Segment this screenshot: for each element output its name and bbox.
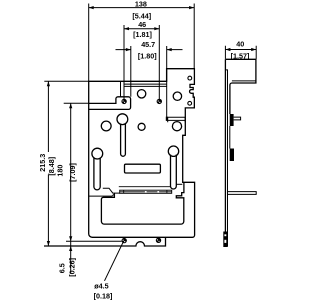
svg-text:215.3: 215.3	[38, 154, 47, 172]
svg-text:[5.44]: [5.44]	[132, 11, 151, 20]
svg-text:45.7: 45.7	[141, 40, 155, 49]
svg-text:ø4.5: ø4.5	[94, 282, 108, 291]
svg-text:[1.80]: [1.80]	[138, 51, 157, 60]
svg-text:46: 46	[138, 20, 146, 29]
svg-text:[1.81]: [1.81]	[133, 30, 152, 39]
svg-text:6.5: 6.5	[57, 263, 66, 273]
svg-text:[0.26]: [0.26]	[68, 258, 77, 277]
svg-text:[1.57]: [1.57]	[231, 51, 250, 60]
svg-text:180: 180	[55, 165, 64, 177]
svg-text:40: 40	[236, 40, 244, 49]
svg-text:138: 138	[135, 0, 147, 8]
svg-text:[0.18]: [0.18]	[94, 292, 113, 300]
svg-text:[7.09]: [7.09]	[68, 163, 77, 182]
